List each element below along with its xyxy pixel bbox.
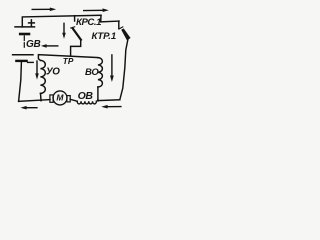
contact КРС.1 stub [74,16,76,21]
battery GB plate2 long [13,54,33,56]
contact КРС.1 tick [71,27,75,28]
battery GB minus sign [28,61,34,63]
wire right border [120,39,128,100]
battery GB plate1 short [20,33,29,36]
svg-text:GB: GB [26,39,40,50]
arrow current into ТР [62,23,66,39]
contact КТР.1 stub [118,21,120,29]
battery GB dashed link [23,36,25,47]
wire bottom right [98,99,120,102]
svg-text:КРС.1: КРС.1 [76,17,101,28]
winding ОВ coil [77,101,96,104]
wire bottom left [19,100,50,102]
node junction ВО-ОВ [97,99,99,101]
arrow current bottom left [20,106,37,110]
winding УО coil [40,60,45,93]
battery GB plate1 long [15,26,35,28]
motor M body [53,91,67,105]
contact КРС.1 blade [73,28,81,39]
battery GB plus sign [29,20,35,26]
contact КТР.1 blade [121,28,130,40]
battery GB plate2 short [16,60,26,62]
svg-text:М: М [56,92,64,102]
node junction УО-bottom [40,99,42,101]
motor M right brush [67,96,70,102]
wire ВО bottom lead [97,87,99,101]
svg-text:ОВ: ОВ [78,90,94,102]
wire left from battery - [19,62,22,101]
wire top from battery + [22,15,101,27]
wire middle node [38,55,98,61]
motor M left brush [50,95,53,102]
arrow current top left [32,8,57,12]
wire motor to ОВ [70,99,77,101]
wire УО bottom lead [40,93,43,100]
svg-text:ТР: ТР [63,56,74,66]
arrow current down right [110,54,114,82]
svg-text:ВО: ВО [85,67,99,78]
arrow current down УО [35,60,39,79]
wire step ТР [71,40,81,56]
arrow current top right [83,8,109,12]
wire jog top right [101,15,119,22]
contact КТР.1 tick [120,27,123,29]
arrow current bottom right [101,105,121,109]
winding ВО coil [98,58,103,87]
svg-text:УО: УО [46,67,60,78]
arrow current toward УО [41,44,59,48]
svg-text:КТР.1: КТР.1 [92,31,117,42]
